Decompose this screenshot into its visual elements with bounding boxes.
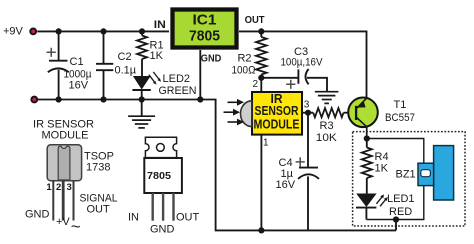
node collector junction [364,135,370,141]
wire top rail +9V to IC1 IN [37,30,169,32]
resistor R1 1K [137,31,164,76]
svg-text:R4: R4 [375,151,389,163]
resistor R3 10K [313,108,356,144]
svg-text:GND: GND [150,223,175,235]
svg-text:MODULE: MODULE [42,130,89,142]
label IN (7805) [128,212,139,224]
label OUT (7805) [176,212,200,224]
svg-text:SENSOR: SENSOR [255,104,299,118]
svg-text:0.1µ: 0.1µ [115,64,137,76]
svg-text:7805: 7805 [147,170,171,182]
svg-text:+V: +V [56,216,70,228]
svg-text:1738: 1738 [86,162,110,174]
node pin1 rail junction [258,227,264,233]
capacitor C4 1u 16V [276,113,320,231]
svg-text:GREEN: GREEN [159,85,197,97]
svg-text:IN: IN [154,19,166,31]
svg-text:3: 3 [304,99,310,110]
node buzzer/led ground junction [393,216,399,222]
svg-text:LED1: LED1 [387,193,415,205]
svg-text:IN: IN [128,212,139,224]
ground below LED2 [128,100,155,128]
svg-text:OUT: OUT [245,14,266,26]
label T1 [394,99,407,111]
svg-text:BZ1: BZ1 [396,168,416,180]
node C1 bottom junction [56,96,62,102]
capacitor C2 0.1u [96,31,137,99]
capacitor C1 1000u 16V [47,31,92,99]
svg-text:C2: C2 [118,51,132,63]
svg-text:1: 1 [46,182,52,193]
wire IC1 GND to rail [199,50,201,100]
resistor R2 100ohm [232,31,267,91]
wire module pin1 to rail [260,136,262,231]
svg-text:1K: 1K [375,162,389,174]
pin label 1 [263,137,269,148]
wire module pin3 [302,112,313,114]
svg-text:R2: R2 [237,53,251,65]
pin label 3 [304,99,310,110]
node OUT junction [258,28,264,34]
node 0V terminal [31,97,37,103]
svg-text:BC557: BC557 [385,112,415,124]
wire OUT rail to transistor emitter [239,31,367,97]
pin label GND [201,52,222,64]
resistor R4 1K [362,139,389,195]
pin label OUT [245,14,266,26]
ground at C3 [315,92,339,104]
svg-text:GND: GND [25,208,50,220]
IR lens on module [241,101,252,127]
svg-text:RED: RED [389,206,412,218]
node C2 top junction [100,28,106,34]
svg-text:16V: 16V [276,179,296,191]
node C2 bottom junction [100,96,106,102]
svg-text:2: 2 [253,79,259,90]
label +V [56,216,70,228]
svg-text:100Ω: 100Ω [232,65,256,77]
svg-text:R3: R3 [320,120,334,132]
svg-text:100µ,16V: 100µ,16V [281,57,324,69]
svg-text:10K: 10K [316,132,338,144]
node C1 top junction [56,28,62,34]
svg-text:T1: T1 [394,99,407,111]
LED2 GREEN [132,72,196,100]
label TSOP 1738 [84,151,114,174]
svg-text:MODULE: MODULE [254,118,300,132]
node LED2 bottom junction [139,96,145,102]
IR beam arrows [224,99,245,126]
buzzer BZ1 [396,146,454,200]
svg-text:OUT: OUT [87,203,111,215]
caption IR SENSOR MODULE [33,119,94,142]
svg-text:~: ~ [71,217,81,236]
node R1 top junction [139,28,145,34]
svg-text:16V: 16V [69,80,89,92]
label GND (tsop) [25,208,50,220]
svg-text:+9V: +9V [3,26,24,38]
wire junction riser to rail [395,220,397,231]
7805 package drawing [144,137,182,220]
svg-text:1: 1 [263,137,269,148]
wire collector to buzzer [367,139,424,164]
svg-text:IC1: IC1 [193,12,217,29]
label ~ [71,217,81,236]
svg-text:C1: C1 [70,56,84,68]
LED1 RED [356,193,415,220]
label SIGNAL OUT [80,192,118,215]
svg-text:3: 3 [67,182,72,193]
svg-text:GND: GND [201,52,222,64]
node 7805 GND junction [197,96,203,102]
node R2/C3 junction [258,75,264,81]
label GND (7805) [150,223,175,235]
transistor T1 BC557 [348,98,378,139]
svg-text:7805: 7805 [189,27,220,44]
wire left bottom rail [38,100,396,231]
node pin3 junction [305,110,311,116]
op-amp IC1 7805 regulator box [173,10,237,48]
wire buzzer bottom to LED1 [366,186,423,220]
IR sensor module box [252,92,302,135]
capacitor C3 100u,16V [261,46,327,92]
svg-text:LED2: LED2 [163,73,191,85]
pin label 2 [253,79,259,90]
svg-text:1K: 1K [150,50,164,62]
TSOP 1738 package drawing [46,145,81,221]
svg-text:OUT: OUT [176,212,200,224]
label BC557 [385,112,415,124]
svg-text:2: 2 [56,182,61,193]
node +9V terminal [3,26,36,38]
pin label IN [154,19,166,31]
dashed alarm box [353,132,465,226]
